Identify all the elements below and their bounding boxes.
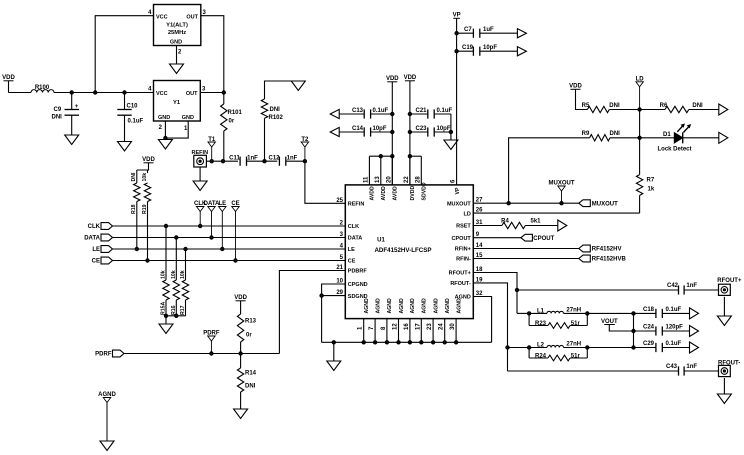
resistor R17 10k (pulldown) <box>180 247 189 315</box>
pin 12 AGND (U1 bottom) <box>393 298 405 330</box>
svg-text:1nF: 1nF <box>686 364 697 370</box>
resistor R101 0r <box>221 93 243 162</box>
wire R9 riser from MUXOUT <box>509 138 590 203</box>
pin 28 SDVDD (U1 top) <box>415 176 427 201</box>
node junction C10 tap <box>123 91 126 94</box>
node junction C18 bus <box>632 312 635 315</box>
svg-text:AGND: AGND <box>456 298 462 314</box>
svg-text:C12: C12 <box>268 155 280 161</box>
node junction L1 right <box>586 312 589 315</box>
svg-text:AGND: AGND <box>422 298 428 314</box>
node junction R101 on REFIN row <box>221 160 224 163</box>
svg-text:MUXOUT: MUXOUT <box>592 201 618 207</box>
node junction T1 on REFIN row <box>210 160 213 163</box>
svg-text:C23: C23 <box>416 126 428 132</box>
svg-text:AGND: AGND <box>399 298 405 314</box>
node junction L2 left <box>527 346 530 349</box>
svg-text:C19: C19 <box>462 45 474 51</box>
svg-text:C9: C9 <box>54 107 62 113</box>
test point LE <box>218 201 226 251</box>
wire C12 to T2 node <box>286 160 305 162</box>
svg-text:5k1: 5k1 <box>531 219 542 225</box>
capacitor C23 10pF <box>410 126 451 137</box>
pin 24 AGND (U1 bottom) <box>439 298 451 330</box>
pin 2 CLK (U1 left) <box>340 221 359 231</box>
svg-text:CE: CE <box>348 259 356 265</box>
svg-text:REFIN: REFIN <box>348 202 365 208</box>
resistor R19 10k (pullup) <box>142 173 151 261</box>
svg-text:C43: C43 <box>666 364 678 370</box>
wire CPOUT row <box>473 237 521 239</box>
svg-text:DNI: DNI <box>131 172 137 181</box>
svg-text:U1: U1 <box>377 238 385 244</box>
wire pin 22 stub (top) <box>409 156 411 185</box>
svg-text:D1: D1 <box>663 132 671 138</box>
wire L2 net to C29 bus <box>587 347 656 349</box>
svg-text:27nH: 27nH <box>566 308 581 314</box>
svg-text:22: 22 <box>404 176 410 183</box>
svg-text:17: 17 <box>415 323 421 330</box>
ground (C19 right) <box>517 47 526 56</box>
ground (C14 left) <box>330 127 339 136</box>
pin 27 MUXOUT (U1 right) <box>447 198 483 208</box>
node junction MUXOUT test point <box>560 202 563 205</box>
svg-text:PDRF: PDRF <box>95 352 112 358</box>
pin 1 label (Y1 GND) <box>184 126 188 132</box>
power flag VP <box>453 13 461 19</box>
svg-text:R101: R101 <box>228 110 243 116</box>
capacitor C13 0.1uF <box>339 108 392 119</box>
resistor R6 DNI <box>640 103 719 113</box>
capacitor C12 1nF <box>268 155 297 166</box>
wire R9 to LD node <box>610 137 640 139</box>
power flag VDD (R13) <box>234 295 247 301</box>
pin 10 CPGND (U1 left) <box>336 279 367 289</box>
wire Y1ALT VCC to main row <box>95 16 153 93</box>
svg-text:28: 28 <box>415 176 421 183</box>
net tag RF4152HV (RFIN+) <box>579 245 622 253</box>
pin 6 VP (U1 top) <box>451 179 461 195</box>
resistor R23 51r <box>529 313 587 328</box>
node junction C29 bus <box>632 346 635 349</box>
svg-text:LE: LE <box>348 247 355 253</box>
ground (below C9) <box>65 135 79 145</box>
svg-text:AGND: AGND <box>433 298 439 314</box>
node junction R9/D1 <box>638 136 641 139</box>
test point T2 <box>301 137 309 161</box>
wire RFOUT- row to C43 <box>508 370 679 372</box>
power flag VDD (left, C13/C14) <box>386 76 399 82</box>
svg-text:VP: VP <box>455 187 461 194</box>
net tag MUXOUT <box>579 200 618 208</box>
power flag VDD (R18/R19 pullups) <box>142 157 155 163</box>
svg-text:R18: R18 <box>131 204 137 214</box>
resistor R24 51r <box>529 348 587 361</box>
pin 20 AVDD (U1 top) <box>386 176 398 201</box>
svg-text:0.1uF: 0.1uF <box>666 341 682 347</box>
pin 25 REFIN (U1 left) <box>336 198 364 208</box>
wire REFIN net to chip pin 25 <box>305 161 345 203</box>
svg-text:AGND: AGND <box>364 298 370 314</box>
ground (R6 right) <box>719 104 728 115</box>
ground (C24 right) <box>690 326 699 337</box>
svg-text:LE: LE <box>92 247 100 253</box>
svg-text:120pF: 120pF <box>666 325 684 331</box>
svg-text:Y1(ALT): Y1(ALT) <box>166 23 188 29</box>
svg-text:DNI: DNI <box>245 384 256 390</box>
ground (below C10) <box>118 142 132 152</box>
wire VDD stub to main row <box>8 81 10 93</box>
svg-text:ADF4152HV-LFCSP: ADF4152HV-LFCSP <box>374 247 431 254</box>
svg-text:R16: R16 <box>171 305 177 315</box>
wire AVDD group bar <box>369 155 394 158</box>
svg-text:AGND: AGND <box>410 298 416 314</box>
node junction L2 right <box>586 346 589 349</box>
pin 14 RFIN+ (U1 right) <box>455 243 483 253</box>
input tag PDRF <box>95 350 124 358</box>
wire RFIN- row <box>473 258 579 260</box>
capacitor C43 1nF <box>666 364 697 376</box>
input tag CLK <box>88 223 113 231</box>
pin 15 RFIN- (U1 right) <box>456 253 483 263</box>
svg-text:1k: 1k <box>648 187 655 193</box>
wire DVDD group bar <box>408 155 421 158</box>
wire pulldown common bar <box>164 314 185 324</box>
pin 22 DVDD (U1 top) <box>404 176 416 201</box>
svg-text:VDD: VDD <box>234 295 247 301</box>
svg-text:20: 20 <box>386 176 392 183</box>
svg-text:AGND: AGND <box>387 298 393 314</box>
svg-text:R17: R17 <box>180 305 186 315</box>
svg-text:25MHz: 25MHz <box>168 30 186 36</box>
ground (Y1ALT GND pin 2) <box>170 64 184 74</box>
svg-text:DVDD: DVDD <box>410 186 416 201</box>
pin 4 label (Y1 VCC) <box>148 87 152 93</box>
svg-text:1uF: 1uF <box>483 27 494 33</box>
svg-text:0.1uF: 0.1uF <box>437 108 453 114</box>
wire RFOUT+ connector gnd stub <box>723 297 725 316</box>
wire SDGND to AGND bus <box>322 296 346 343</box>
svg-text:30: 30 <box>450 323 456 330</box>
capacitor C11 1nF <box>229 155 258 166</box>
svg-text:51r: 51r <box>571 353 581 359</box>
svg-text:R4: R4 <box>501 219 509 225</box>
ground (pulldowns) <box>159 324 173 334</box>
ground (C21/C23) <box>444 140 458 150</box>
wire R5 to LD node <box>609 109 639 111</box>
pin 18 RFOUT+ (U1 right) <box>449 267 483 277</box>
svg-text:VDD: VDD <box>404 75 417 81</box>
pin 2 label (Y1 GND) <box>159 125 163 131</box>
svg-text:C21: C21 <box>416 108 428 114</box>
wire AGND bus <box>334 341 492 343</box>
resistor R7 1k <box>636 175 654 214</box>
svg-text:10k: 10k <box>171 270 177 279</box>
pin 9 CPOUT (U1 right) <box>452 232 480 242</box>
svg-text:L1: L1 <box>537 308 545 314</box>
pin 29 SDGND (U1 left) <box>336 290 367 300</box>
wire Y1 GND pin2 stub <box>164 121 166 138</box>
wire VDD stub to pullups <box>137 163 149 173</box>
ground (AGND net) <box>100 441 114 451</box>
svg-text:CLK: CLK <box>348 224 359 230</box>
svg-text:11: 11 <box>363 176 369 183</box>
wire Y1ALT GND stub <box>176 46 178 65</box>
input tag DATA <box>84 234 112 242</box>
capacitor C14 10pF <box>339 126 392 137</box>
pin 3 label (Y1ALT OUT) <box>203 10 207 16</box>
svg-text:LD: LD <box>463 211 470 217</box>
pin 26 LD (U1 right) <box>463 208 483 218</box>
wire AGND pin 32 to bus <box>473 297 491 343</box>
svg-text:Lock Detect: Lock Detect <box>657 146 691 152</box>
wire C24 to gnd <box>662 330 689 332</box>
net tag CPOUT <box>521 234 555 242</box>
connector REFIN (SMA) <box>192 150 209 167</box>
svg-text:L2: L2 <box>537 343 545 349</box>
svg-text:VCC: VCC <box>156 91 168 97</box>
capacitor C19 10pF <box>457 45 518 56</box>
svg-text:GND: GND <box>170 40 182 46</box>
wire Y1ALT OUT down to OUT node <box>201 16 224 93</box>
svg-text:C14: C14 <box>352 126 364 132</box>
capacitor C24 120pF <box>634 325 684 336</box>
node junction C9 tap <box>70 91 73 94</box>
node junction R19 on CE row <box>146 259 149 262</box>
node junction C23 tap <box>408 130 411 133</box>
wire MUXOUT row <box>473 202 579 204</box>
wire CLK row to chip <box>113 225 346 227</box>
svg-text:CE: CE <box>92 259 100 265</box>
ground (RFOUT+ connector) <box>717 316 731 326</box>
node junction C14 tap <box>391 130 394 133</box>
node junction C24 bus <box>632 329 635 332</box>
wire PDRF net to chip pin 21 <box>279 271 345 354</box>
wire RFOUT+ to vertical <box>473 273 517 314</box>
svg-text:SDVDD: SDVDD <box>422 182 428 200</box>
pin 30 AGND (U1 bottom) <box>450 298 462 330</box>
capacitor C7 1uF <box>457 27 518 38</box>
power flag VDD (lock detect) <box>569 84 582 90</box>
connector RFOUT+ (SMA) <box>717 278 742 295</box>
svg-text:C7: C7 <box>464 27 472 33</box>
wire main row R100 to Y1 VCC <box>54 92 154 94</box>
wire AGND pin stubs (bottom) <box>362 319 458 344</box>
node junction SDGND <box>320 294 323 297</box>
pin 3 label (Y1 OUT) <box>202 87 206 93</box>
resistor R9 DNI <box>582 131 621 141</box>
svg-text:VDD: VDD <box>2 75 15 81</box>
svg-text:DATA: DATA <box>84 236 100 242</box>
svg-text:R9: R9 <box>582 131 590 137</box>
svg-text:10k: 10k <box>180 270 186 279</box>
wire C43 to connector <box>684 370 719 372</box>
wire VDD to R5 <box>576 89 588 109</box>
power flag VOUT <box>601 319 618 325</box>
svg-text:27nH: 27nH <box>566 341 581 347</box>
wire DATA row to chip <box>113 237 346 239</box>
svg-text:Y1: Y1 <box>173 100 181 106</box>
svg-text:0.1uF: 0.1uF <box>128 119 144 125</box>
svg-text:DNI: DNI <box>692 103 703 109</box>
svg-text:25: 25 <box>336 198 343 204</box>
wire pin 28 stub (top) <box>420 156 422 185</box>
svg-text:10k: 10k <box>161 270 167 279</box>
node junction C13 tap <box>391 112 394 115</box>
pin 23 AGND (U1 bottom) <box>427 298 439 330</box>
resistor R16 10k (pulldown) <box>171 236 180 316</box>
svg-text:13: 13 <box>375 176 381 183</box>
svg-text:RFOUT-: RFOUT- <box>450 281 471 287</box>
resistor R102 DNI <box>261 81 298 161</box>
capacitor C42 1nF <box>667 283 697 295</box>
pin 5 CE (U1 left) <box>340 255 356 265</box>
svg-text:OUT: OUT <box>186 91 198 97</box>
wire C42 to connector <box>684 289 719 291</box>
node junction AGND bus left <box>332 341 335 344</box>
ground (C13 left) <box>330 109 339 118</box>
svg-text:16: 16 <box>404 323 410 330</box>
resistor R4 5k1 <box>473 219 558 229</box>
svg-text:PDBRF: PDBRF <box>348 269 368 275</box>
test point MUXOUT <box>549 181 575 204</box>
capacitor C18 0.1uF <box>643 307 682 318</box>
node junction C7 tap <box>455 32 458 35</box>
svg-text:R23: R23 <box>535 321 547 327</box>
svg-text:RFIN+: RFIN+ <box>455 247 471 253</box>
node junction L1 left <box>527 312 530 315</box>
ground (C7 right) <box>517 29 526 38</box>
wire VP riser to chip <box>456 18 458 185</box>
wire PDRF row <box>124 353 279 355</box>
svg-text:R100: R100 <box>35 85 50 91</box>
pin 7 AGND (U1 bottom) <box>369 298 381 330</box>
svg-text:DATA: DATA <box>348 236 362 242</box>
svg-text:0.1uF: 0.1uF <box>666 307 682 313</box>
svg-text:1nF: 1nF <box>247 155 258 161</box>
wire LD row <box>473 212 639 214</box>
ground (C18 right) <box>690 308 699 319</box>
svg-text:VDD: VDD <box>569 84 582 90</box>
wire REFIN row <box>206 160 238 162</box>
wire pin 20 stub (top) <box>391 156 393 185</box>
pin 21 PDBRF (U1 left) <box>336 265 367 275</box>
test point CE <box>231 201 239 262</box>
node junction RFOUT+ C42 tap <box>515 288 518 291</box>
pin 13 AVDD (U1 top) <box>375 176 387 201</box>
svg-text:R6: R6 <box>660 103 668 109</box>
wire REFIN connector ground stub <box>199 167 201 181</box>
svg-text:24: 24 <box>439 323 445 330</box>
ground (AGND bus) <box>327 361 341 371</box>
power flag VDD (net VDD, top left) <box>2 75 15 81</box>
node junction C21 tap <box>408 112 411 115</box>
svg-text:OUT: OUT <box>186 14 198 20</box>
svg-text:10pF: 10pF <box>437 126 451 132</box>
svg-text:0r: 0r <box>229 119 235 125</box>
svg-text:0r: 0r <box>246 333 252 339</box>
svg-text:R13: R13 <box>245 319 257 325</box>
pin 1 AGND (U1 bottom) <box>358 298 370 330</box>
svg-text:R24: R24 <box>535 353 547 359</box>
ground (R14) <box>234 409 248 419</box>
wire L2 row from vertical <box>508 347 530 349</box>
svg-text:C24: C24 <box>643 325 655 331</box>
svg-text:1nF: 1nF <box>287 155 298 161</box>
wire D1 cathode <box>683 137 719 139</box>
wire AGND bus ground stub <box>333 342 335 361</box>
svg-text:CLK: CLK <box>88 224 101 230</box>
svg-text:1nF: 1nF <box>686 283 697 289</box>
input tag CE <box>92 257 113 265</box>
svg-text:RF4152HV: RF4152HV <box>592 247 622 253</box>
svg-text:R19: R19 <box>142 204 148 214</box>
pin 4 label (Y1ALT VCC) <box>148 10 152 16</box>
svg-text:0.1uF: 0.1uF <box>373 108 389 114</box>
svg-text:AVDD: AVDD <box>370 186 376 201</box>
svg-text:VDD: VDD <box>142 157 155 163</box>
wire RFOUT- connector gnd stub <box>723 378 725 394</box>
resistor R100 (ferrite bead) <box>31 85 54 93</box>
wire VOUT stub <box>609 325 633 332</box>
svg-text:DNI: DNI <box>52 115 63 121</box>
test point DATA <box>204 201 220 239</box>
node junction Y1 OUT / R101 <box>222 91 225 94</box>
svg-text:RFIN-: RFIN- <box>456 257 471 263</box>
wire CE row to chip <box>113 260 346 262</box>
svg-text:C13: C13 <box>352 108 364 114</box>
svg-text:AVDD: AVDD <box>381 186 387 201</box>
wire VDD1 riser <box>391 82 393 185</box>
wire RFIN+ row <box>473 248 579 250</box>
node junction C23 right <box>449 130 452 133</box>
wire bus vertical (C18/C24/C29) <box>633 313 635 347</box>
svg-text:R14: R14 <box>245 371 257 377</box>
node junction C19 tap <box>455 50 458 53</box>
wire LD vertical <box>639 110 641 175</box>
wire C21/C23 right join <box>450 114 452 140</box>
node junction PDRF test point <box>210 352 213 355</box>
test point T1 <box>208 137 216 161</box>
svg-text:GND: GND <box>158 115 170 121</box>
oscillator Y1(ALT) 25MHz <box>154 5 201 46</box>
svg-text:C29: C29 <box>643 341 655 347</box>
svg-text:VP: VP <box>453 13 461 19</box>
ground (R102 top) <box>291 81 305 91</box>
svg-text:23: 23 <box>427 323 433 330</box>
svg-text:10pF: 10pF <box>373 126 387 132</box>
svg-text:RSET: RSET <box>456 224 471 230</box>
svg-text:AGND: AGND <box>375 298 381 314</box>
wire pin 13 stub (top) <box>380 156 382 185</box>
capacitor C29 0.1uF <box>643 341 682 352</box>
svg-text:DNI: DNI <box>270 107 281 113</box>
wire L1 net to C18 <box>587 312 656 314</box>
capacitor C9 (DNI, polarized) <box>52 93 80 136</box>
resistor R18 DNI (pullup) <box>131 170 140 249</box>
pin 17 AGND (U1 bottom) <box>415 298 427 330</box>
wire C18 to gnd <box>662 312 689 314</box>
pin 11 AVDD (U1 top) <box>363 176 375 201</box>
svg-text:R5: R5 <box>582 103 590 109</box>
capacitor C10 (0.1uF) <box>117 93 143 142</box>
wire main row left segment <box>9 92 32 94</box>
inductor L1 27nH <box>529 308 587 315</box>
pin 2 label (Y1ALT GND) <box>178 50 182 56</box>
svg-text:MUXOUT: MUXOUT <box>447 201 471 207</box>
ground (RFOUT- connector) <box>717 394 731 404</box>
resistor R14 DNI <box>237 354 256 410</box>
